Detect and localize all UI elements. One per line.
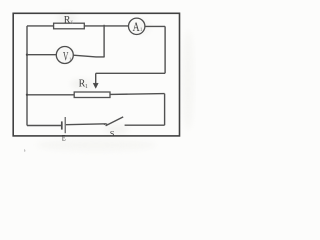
wire ammeter to right corner [145, 25, 165, 27]
wire voltmeter riser [103, 25, 105, 57]
battery E [61, 121, 63, 129]
frame (drawn, not labelled content) [13, 13, 179, 136]
wire voltmeter left [27, 54, 56, 56]
junction dot voltmeter tap [26, 54, 28, 56]
svg-text:x: x [70, 20, 73, 26]
svg-text:1: 1 [140, 27, 143, 33]
switch S [106, 117, 124, 126]
wire top-left horizontal [27, 25, 54, 27]
wire rheostat left [27, 94, 74, 96]
rheostat R1 [74, 92, 110, 98]
svg-text:S: S [110, 128, 115, 138]
wire left vertical [26, 26, 28, 126]
wire Rx to ammeter [84, 25, 128, 27]
rheostat R1 slider arrow [95, 73, 97, 83]
junction dot rheostat tap [26, 94, 28, 96]
wire right vertical upper [164, 26, 166, 73]
wire bottom right [125, 124, 165, 126]
svg-text:1: 1 [85, 84, 88, 90]
wire bottom left [27, 125, 61, 127]
ammeter A1 [129, 18, 145, 34]
wire right vertical lower [164, 94, 166, 126]
svg-text:E: E [62, 132, 66, 142]
stray mark below frame [24, 150, 26, 152]
svg-text:A: A [133, 20, 140, 34]
wire rheostat right [110, 93, 165, 96]
wire slider feed [96, 72, 165, 74]
wire voltmeter right [73, 55, 104, 57]
wire battery to switch [66, 123, 106, 126]
svg-text:V: V [63, 49, 68, 63]
svg-text:1: 1 [69, 57, 72, 63]
voltmeter V1 [56, 47, 73, 64]
resistor Rx [54, 23, 85, 29]
